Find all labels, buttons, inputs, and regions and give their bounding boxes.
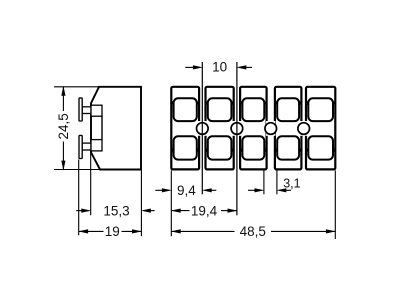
segment 5 xyxy=(306,87,335,170)
inner line between blocks xyxy=(101,116,103,139)
circle at boundary 2 xyxy=(231,123,243,135)
extension line top (body top edge extended left) xyxy=(54,86,100,88)
center line boundary 1 (for 10 and 9,4) xyxy=(201,62,203,194)
extension line x=141.4 (for 15,3 and 19) xyxy=(140,171,142,237)
wire entry square seg2 bottom xyxy=(208,136,232,159)
circle at boundary 3 xyxy=(265,123,277,135)
clamp stem upper xyxy=(82,107,91,114)
dimension 9,4 arrows xyxy=(155,189,163,191)
clamp bar upper xyxy=(79,98,82,121)
clamp block lower xyxy=(91,140,102,151)
ticks top row xyxy=(171,101,336,104)
dimension 48,5 arrows xyxy=(171,229,181,233)
dimension 24,5 arrow down xyxy=(61,161,65,171)
segment 4 xyxy=(275,87,302,170)
dimension 15,3 right arrow xyxy=(149,210,155,212)
center line boundary 2 (for 10 and 19,4) xyxy=(236,62,238,215)
wire entry square seg3 top xyxy=(242,98,264,121)
dimension 19,4 arrows xyxy=(171,209,181,213)
clamp bar lower xyxy=(79,135,82,158)
wire entry square seg1 bottom xyxy=(174,136,197,159)
dimension 48,5 line xyxy=(171,230,234,232)
dimension 19 arrows xyxy=(78,229,88,233)
dimension 19 line xyxy=(79,230,104,232)
svg-text:3,1: 3,1 xyxy=(283,176,300,190)
extension line 3,1 left xyxy=(263,170,265,194)
dimension 24,5 line xyxy=(62,87,64,111)
wire entry square seg2 top xyxy=(208,98,232,121)
svg-text:19: 19 xyxy=(105,224,120,239)
wire entry square seg4 bottom xyxy=(277,136,299,159)
extension line x=90.7 (for 15,3) xyxy=(90,153,92,216)
wire entry square seg1 top xyxy=(174,98,197,121)
circle at boundary 4 xyxy=(298,123,310,135)
dimension 15,3 left arrow xyxy=(76,210,83,212)
wire entry square seg4 top xyxy=(277,98,299,121)
dimension 24,5 arrow up xyxy=(61,86,65,96)
segment 3 xyxy=(240,87,267,170)
body outline xyxy=(91,87,141,170)
svg-text:10: 10 xyxy=(212,60,227,75)
dimension 10 arrows xyxy=(185,66,194,68)
extension line left edge (for 9,4 19,4 48,5) xyxy=(170,170,172,236)
svg-text:48,5: 48,5 xyxy=(240,224,266,239)
extension line x=78.7 (for 19) xyxy=(78,160,80,236)
extension line bottom (body bottom edge extended left) xyxy=(54,169,100,171)
clamp stem lower xyxy=(82,143,91,150)
svg-text:9,4: 9,4 xyxy=(177,183,196,198)
svg-text:19,4: 19,4 xyxy=(191,204,218,219)
dimension 3,1 arrows xyxy=(248,189,256,191)
segment 1 xyxy=(171,87,199,170)
wire entry square seg3 bottom xyxy=(242,136,264,159)
wire entry square seg5 bottom xyxy=(308,136,333,159)
wire entry square seg5 top xyxy=(308,98,333,121)
segment 2 xyxy=(206,87,234,170)
circle clearings xyxy=(198,121,207,136)
circle at boundary 1 xyxy=(197,123,209,135)
svg-text:15,3: 15,3 xyxy=(103,204,129,219)
clamp block upper xyxy=(91,105,102,116)
dimension 19,4 line xyxy=(171,210,189,212)
ticks bottom row xyxy=(171,148,336,151)
extension line right edge (for 48,5) xyxy=(334,170,336,239)
extension line 3,1 right xyxy=(276,170,278,194)
svg-text:24,5: 24,5 xyxy=(56,113,71,139)
